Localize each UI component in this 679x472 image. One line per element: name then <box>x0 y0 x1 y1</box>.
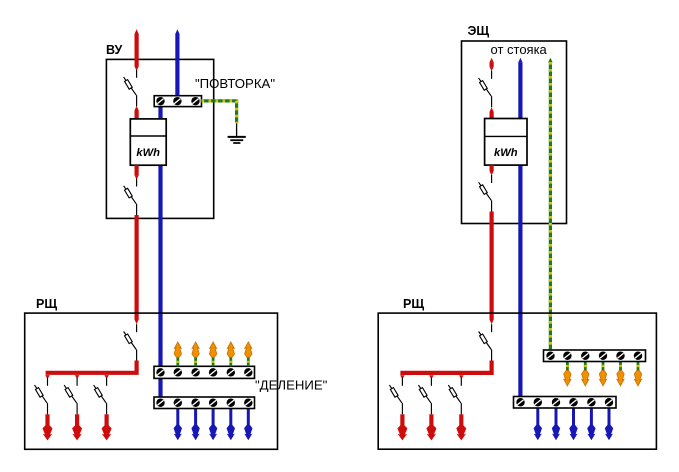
arrow N out 1 right <box>534 425 542 440</box>
breaker QF4 (left feeder 1) <box>35 378 48 415</box>
terminal strip upper (РЩ left) <box>154 366 255 378</box>
wire red meter out (ЭЩ) <box>490 165 494 176</box>
svg-text:kWh: kWh <box>494 147 518 159</box>
wire red feeder 1 left <box>45 414 49 427</box>
node bus tap 1 left <box>45 375 50 379</box>
arrow PE out 4 right (down) <box>617 371 624 386</box>
wire red feeder 1 right <box>400 414 404 427</box>
svg-text:РЩ: РЩ <box>36 297 57 311</box>
svg-text:РЩ: РЩ <box>403 297 424 311</box>
breaker QF1 <box>124 70 137 107</box>
wire red ВУ to РЩ <box>135 215 139 324</box>
PE stub 1 left <box>176 356 179 367</box>
enclosure box ЭЩ <box>462 41 567 224</box>
wire red bus left <box>46 361 137 373</box>
wire N blue block to РЩ <box>158 107 162 401</box>
arrow N out 4 right <box>587 425 595 440</box>
svg-text:kWh: kWh <box>136 147 160 159</box>
svg-text:от стояка: от стояка <box>491 42 548 57</box>
arrow N out 3 left <box>209 425 217 440</box>
terminal strip PE (РЩ right) <box>544 350 646 362</box>
breaker QF5 (left feeder 2) <box>64 378 77 415</box>
breaker QF10 (right feeder 1) <box>389 378 402 415</box>
arrow N out 2 left <box>191 425 199 440</box>
arrow load feeder 2 left <box>72 425 82 440</box>
enclosure box РЩ left <box>25 313 278 449</box>
PE stub 4 right <box>619 362 622 373</box>
arrow N out 3 right <box>569 425 577 440</box>
breaker QF11 (right feeder 2) <box>418 378 431 415</box>
node bus tap 2 right <box>429 375 434 379</box>
enclosure box ВУ <box>106 59 213 218</box>
svg-text:"ПОВТОРКА": "ПОВТОРКА" <box>195 76 275 91</box>
wire red feeder 3 left <box>104 414 108 427</box>
wire N stub 4 left <box>229 409 232 427</box>
node bus tap 1 right <box>400 375 405 379</box>
wire red feeder 2 left <box>75 414 79 427</box>
arrow PE out 5 left (up) <box>245 342 252 357</box>
PE stub 4 left <box>229 356 232 367</box>
wire N stub 3 right <box>572 408 575 426</box>
wire N stub 5 left <box>247 409 250 427</box>
meter kWh (ЭЩ) <box>485 119 527 166</box>
svg-text:"ДЕЛЕНИЕ": "ДЕЛЕНИЕ" <box>255 377 328 392</box>
arrow load feeder 1 left <box>43 425 53 440</box>
node bus tap 3 right <box>459 375 464 379</box>
arrow PE out 5 right (down) <box>634 371 641 386</box>
arrow load feeder 3 right <box>456 425 466 440</box>
wire N stub 1 left <box>176 409 179 427</box>
arrow N out 5 left <box>244 425 252 440</box>
breaker QF12 (right feeder 3) <box>448 378 461 415</box>
arrow PE out 3 right (down) <box>599 371 606 386</box>
PE stub 5 right <box>637 362 640 373</box>
svg-text:ВУ: ВУ <box>106 43 123 57</box>
terminal strip N (РЩ right) <box>514 397 617 409</box>
wire N blue feed top <box>175 29 179 96</box>
terminal block X1 (ВУ) <box>154 96 201 107</box>
wire N stub 2 right <box>555 408 558 426</box>
ground pin <box>236 124 238 137</box>
arrow PE out 3 left (up) <box>209 342 216 357</box>
PE stub 2 left <box>194 356 197 367</box>
PE stub 1 right <box>566 362 569 373</box>
PE stub 2 right <box>584 362 587 373</box>
terminal strip lower (РЩ left) <box>154 397 255 409</box>
wire N stub 1 right <box>536 408 539 426</box>
PE stub 3 left <box>212 356 215 367</box>
wire L red riser <box>490 58 494 72</box>
arrow N out 5 right <box>605 425 613 440</box>
breaker QF3 (РЩ left main) <box>124 324 137 361</box>
arrow N out 4 left <box>227 425 235 440</box>
arrow PE out 4 left (up) <box>227 342 234 357</box>
wire red feeder 3 right <box>459 414 463 427</box>
wire red ЭЩ to РЩ <box>490 212 494 325</box>
arrow PE out 2 left (up) <box>192 342 199 357</box>
arrow PE out 2 right (down) <box>582 371 589 386</box>
node bus tap 3 left <box>104 375 109 379</box>
wire N stub 4 right <box>590 408 593 426</box>
wire red feeder 2 right <box>429 414 433 427</box>
wire red QF1 to meter <box>135 106 139 120</box>
wire N blue riser <box>518 58 522 401</box>
PE wire green-yellow jumper <box>202 101 237 124</box>
arrow N out 1 left <box>174 425 182 440</box>
arrow PE out 1 left (up) <box>174 342 181 357</box>
wire L red feed top <box>135 29 139 71</box>
wire red bus right <box>400 361 491 373</box>
PE stub 5 left <box>247 356 250 367</box>
arrow load feeder 2 right <box>426 425 436 440</box>
breaker QF7 (ЭЩ) <box>479 71 492 108</box>
arrow PE out 1 right (down) <box>564 371 571 386</box>
wire red QF7 to meter <box>490 107 494 119</box>
ground symbol <box>228 137 246 143</box>
wire N stub 3 left <box>212 409 215 427</box>
svg-text:ЭЩ: ЭЩ <box>468 24 490 38</box>
breaker QF6 (left feeder 3) <box>94 378 107 415</box>
node bus tap 2 left <box>75 375 80 379</box>
enclosure box РЩ right <box>378 313 656 449</box>
breaker QF9 (РЩ right main) <box>479 324 492 361</box>
breaker QF2 <box>124 179 137 216</box>
arrow load feeder 1 right <box>397 425 407 440</box>
PE stub 3 right <box>602 362 605 373</box>
wire red meter out <box>135 165 139 180</box>
meter kWh (ВУ) <box>130 119 166 165</box>
wire N stub 2 left <box>194 409 197 427</box>
arrow load feeder 3 left <box>102 425 112 440</box>
breaker QF8 (ЭЩ lower) <box>479 175 492 212</box>
wire PE green riser <box>548 58 553 353</box>
arrow N out 2 right <box>552 425 560 440</box>
wire N stub 5 right <box>608 408 611 426</box>
